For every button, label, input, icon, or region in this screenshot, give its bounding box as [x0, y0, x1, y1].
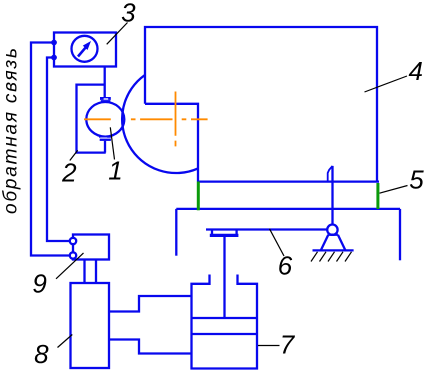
- wheel housing box 4: [145, 27, 377, 182]
- workpiece circle 1: [86, 102, 124, 137]
- table top edge: [198, 180, 379, 182]
- svg-text:9: 9: [32, 269, 46, 299]
- leader 9: [56, 253, 84, 279]
- leader 3: [107, 23, 128, 45]
- leader 7: [258, 345, 280, 347]
- lever 6: [206, 228, 328, 230]
- bed right wall: [399, 209, 401, 260]
- svg-text:7: 7: [280, 329, 296, 359]
- gauge U3 box: [54, 33, 116, 67]
- svg-text:3: 3: [121, 0, 136, 28]
- svg-text:5: 5: [409, 165, 424, 195]
- ground base line: [313, 249, 354, 251]
- probe rod: [331, 166, 333, 225]
- junction dot upper: [51, 40, 57, 46]
- leader 8: [58, 335, 73, 348]
- svg-text:обратная связь: обратная связь: [1, 46, 22, 214]
- table bottom edge / bed top: [176, 208, 400, 210]
- gauge dial circle: [72, 36, 98, 62]
- junction dot lower: [51, 55, 57, 61]
- svg-text:1: 1: [108, 156, 122, 186]
- valve box 9: [73, 235, 109, 260]
- leader 5: [380, 186, 408, 194]
- terminal circle lower: [70, 252, 76, 258]
- green tick right: [376, 183, 379, 209]
- lever cup: [212, 230, 237, 236]
- bracket 2: [77, 85, 106, 153]
- centerline horizontal: [84, 118, 208, 120]
- grinding wheel arc: [122, 75, 198, 173]
- svg-text:2: 2: [61, 157, 77, 187]
- svg-text:4: 4: [408, 56, 422, 86]
- pivot triangle: [321, 235, 346, 251]
- gauge needle: [78, 45, 88, 56]
- leader lines: [56, 23, 408, 348]
- gauge needle arrowhead: [83, 41, 91, 50]
- linkage upper: [109, 296, 192, 312]
- svg-text:8: 8: [34, 339, 49, 369]
- wire feedback outer: [31, 43, 70, 256]
- bed left wall: [175, 209, 177, 256]
- cup flange: [210, 234, 239, 237]
- pivot circle: [327, 225, 337, 235]
- amplifier box 8: [71, 283, 110, 368]
- hatching ground: [311, 252, 352, 262]
- bottom clamp stem: [104, 141, 106, 153]
- centerline vertical: [175, 92, 177, 147]
- leader 2: [70, 150, 78, 160]
- leader 4: [365, 76, 408, 92]
- piston bottom: [192, 333, 258, 335]
- green tick left: [197, 182, 200, 211]
- svg-text:6: 6: [278, 251, 293, 281]
- linkage lower: [109, 340, 192, 354]
- gauge stem wire down: [104, 67, 106, 98]
- piston rod of cylinder 7: [223, 235, 225, 318]
- piston top: [192, 317, 258, 319]
- bottom clamp: [99, 136, 112, 141]
- wire feedback inner: [47, 58, 70, 242]
- leader 6: [270, 229, 285, 256]
- terminal circle upper: [70, 238, 76, 244]
- leader 1: [110, 127, 114, 159]
- top clamp: [100, 97, 111, 102]
- cylinder 7 body: [192, 275, 258, 369]
- housing step: [145, 104, 198, 182]
- stem 9 to 8: [85, 260, 97, 284]
- probe hook: [328, 166, 333, 181]
